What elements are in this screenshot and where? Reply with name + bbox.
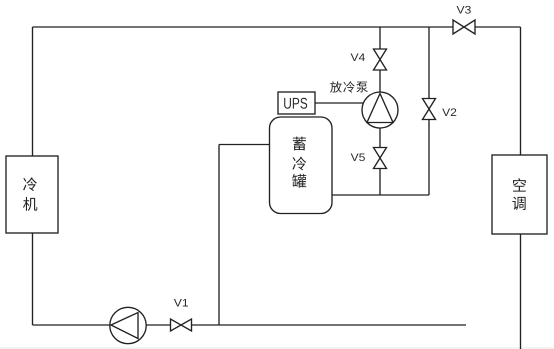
label 放冷泵 (discharge pump) [330, 81, 368, 92]
label V5 [351, 153, 365, 161]
label 空调 (air conditioner) [512, 178, 525, 210]
wire V2 branch vertical [428, 27, 430, 195]
AC box 空调 [492, 155, 547, 234]
chiller box 冷机 [6, 156, 58, 233]
bottom edge artifact line [0, 348, 554, 349]
wire left vertical lower [32, 233, 34, 325]
label V3 [457, 6, 471, 14]
wire right vertical lower [520, 234, 522, 349]
pump P2 (discharge pump) circle [362, 92, 398, 128]
valve V2 [423, 99, 436, 120]
wire left vertical upper [32, 27, 34, 156]
wire tank outlet horizontal [332, 194, 429, 196]
label UPS [284, 98, 307, 109]
wire UPS to pump [315, 102, 368, 104]
tank 蓄冷罐 [270, 117, 333, 214]
wire right vertical upper [520, 27, 522, 155]
valve V1 [171, 319, 192, 331]
label V4 [351, 53, 365, 61]
wire top pipe [33, 26, 521, 28]
valve V4 [374, 49, 387, 70]
label 冷机 (chiller) [23, 177, 37, 211]
label V2 [442, 108, 456, 116]
label V1 [174, 299, 188, 307]
wire pump branch vertical [379, 27, 381, 195]
UPS box [278, 92, 315, 114]
pump P1 (bottom) circle [110, 307, 146, 343]
pump P1 triangle [111, 313, 138, 339]
wire riser x219 [218, 145, 220, 326]
wire tank inlet [219, 144, 270, 146]
wire bottom pipe [33, 324, 467, 326]
valve V3 [453, 20, 475, 34]
pump P2 triangle [367, 94, 393, 123]
valve V5 [374, 148, 387, 169]
label 蓄冷罐 (storage tank) [292, 137, 306, 188]
